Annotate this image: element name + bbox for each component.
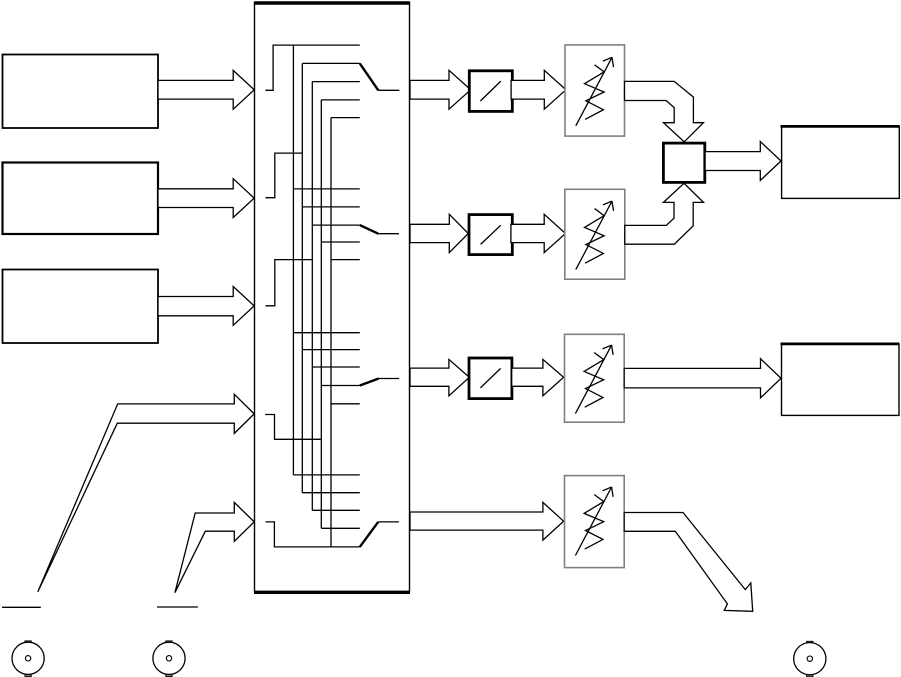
variable attenuator 3 box [565, 334, 625, 422]
arrow: matrix output 1 to divider 1 [410, 70, 471, 109]
arrow: source 1 to matrix input 1 [158, 70, 254, 109]
slash symbol in divider 1 [480, 81, 500, 101]
switch matrix box [255, 3, 410, 593]
box: source 1 (top left) [3, 55, 159, 129]
wire: input 1 hook riser and row1 contact 1 [265, 45, 359, 90]
arrow: divider 3 to attenuator 3 [512, 359, 564, 395]
contact stub: row2 input5 [331, 259, 360, 261]
bus line: input 1 vertical [292, 45, 294, 475]
arrow: divider 2 to attenuator 2 [511, 214, 566, 252]
box: source 3 (lower left) [3, 270, 159, 344]
contact stub: row3 input3 [312, 366, 360, 368]
contact stub: row2 input1 [293, 188, 359, 190]
contact stub: row1 input4 [321, 99, 360, 101]
wire: row3 output line [379, 378, 399, 380]
contact stub: row3 input1 [293, 332, 359, 334]
output box 1 [782, 126, 900, 198]
divider box 3 (slash) [469, 358, 512, 399]
divider box 1 (slash) [469, 71, 512, 112]
switch matrix thick top edge [254, 1, 410, 4]
wire: input 2 hook riser [266, 153, 303, 198]
switch arm: row2 selects input3 [360, 225, 378, 234]
contact stub: row1 input5 [331, 117, 360, 119]
wire: input 5 hook riser and row4 contact 5 [266, 522, 360, 547]
BNC connector 2 [153, 641, 185, 677]
BNC connector 1 [12, 641, 44, 677]
bent arrow: attenuator 1 down into combiner [625, 81, 704, 141]
combiner box [663, 143, 704, 182]
output box 2 [782, 344, 900, 416]
wire: row2 output line [378, 233, 399, 235]
contact stub: row1 input2 [302, 62, 360, 64]
contact stub: row2 input2 [302, 206, 360, 208]
variable attenuator 2 box [565, 189, 625, 279]
attenuator 4 symbol [575, 487, 613, 556]
variable attenuator 4 box [565, 476, 625, 568]
box: source 2 (middle left) [3, 163, 159, 235]
contact stub: row3 input4 [321, 385, 360, 387]
reference line 2 [157, 606, 198, 608]
bent arrow: attenuator 4 down-right to monitor output [624, 513, 753, 612]
arrow: matrix output 4 to attenuator 4 [410, 502, 564, 540]
bus line: input 4 vertical [320, 100, 322, 528]
bus line: input 3 vertical [311, 82, 313, 511]
arrow: source 3 to matrix input 3 [158, 287, 254, 326]
contact stub: row3 input5 [331, 403, 360, 405]
contact stub: row4 input2 [302, 492, 360, 494]
switch arm: row3 selects input4 [360, 379, 379, 386]
slash symbol in divider 3 [480, 368, 500, 388]
wire: input 4 hook riser [265, 415, 321, 440]
slash symbol in divider 2 [481, 225, 501, 244]
BNC connector 3 [794, 641, 826, 677]
arrow: attenuator 3 to output box 2 [624, 359, 781, 398]
tapered arrow: from reference input 2 up to matrix input 5 [175, 502, 254, 592]
contact stub: row4 input1 [293, 474, 359, 476]
contact stub: row3 input2 [302, 349, 360, 351]
divider box 2 (slash) [469, 215, 512, 255]
bus line: input 2 vertical [301, 63, 303, 492]
wire: row1 output line [378, 89, 399, 91]
bus line: input 5 vertical [330, 118, 332, 547]
variable attenuator 1 box [565, 45, 625, 136]
arrow: source 2 to matrix input 2 [158, 179, 254, 218]
contact stub: row4 input3 [312, 509, 360, 511]
contact stub: row2 input3 [312, 224, 360, 226]
tapered arrow: from reference input 1 up to matrix input 4 [38, 394, 254, 592]
attenuator 3 symbol [575, 345, 613, 414]
arrow: combiner to output box 1 [705, 142, 781, 181]
switch matrix thick bottom edge [254, 591, 410, 594]
arrow: divider 1 to attenuator 1 [511, 70, 566, 109]
contact stub: row1 input3 [312, 81, 360, 83]
bent arrow: attenuator 2 up into combiner [625, 183, 704, 244]
wire: row4 output line [378, 521, 399, 523]
contact stub: row2 input4 [321, 241, 360, 243]
arrow: matrix output 2 to divider 2 [410, 214, 468, 252]
attenuator 1 symbol [576, 57, 614, 126]
reference line 1 (left) [2, 606, 41, 608]
wire: input 3 hook riser [266, 260, 313, 306]
contact stub: row4 input4 [321, 527, 360, 529]
attenuator 2 symbol [576, 201, 614, 269]
switch arm: row4 selects input5 [360, 522, 378, 547]
switch arm: row1 selects input2 [360, 63, 379, 90]
arrow: matrix output 3 to divider 3 [410, 359, 469, 395]
